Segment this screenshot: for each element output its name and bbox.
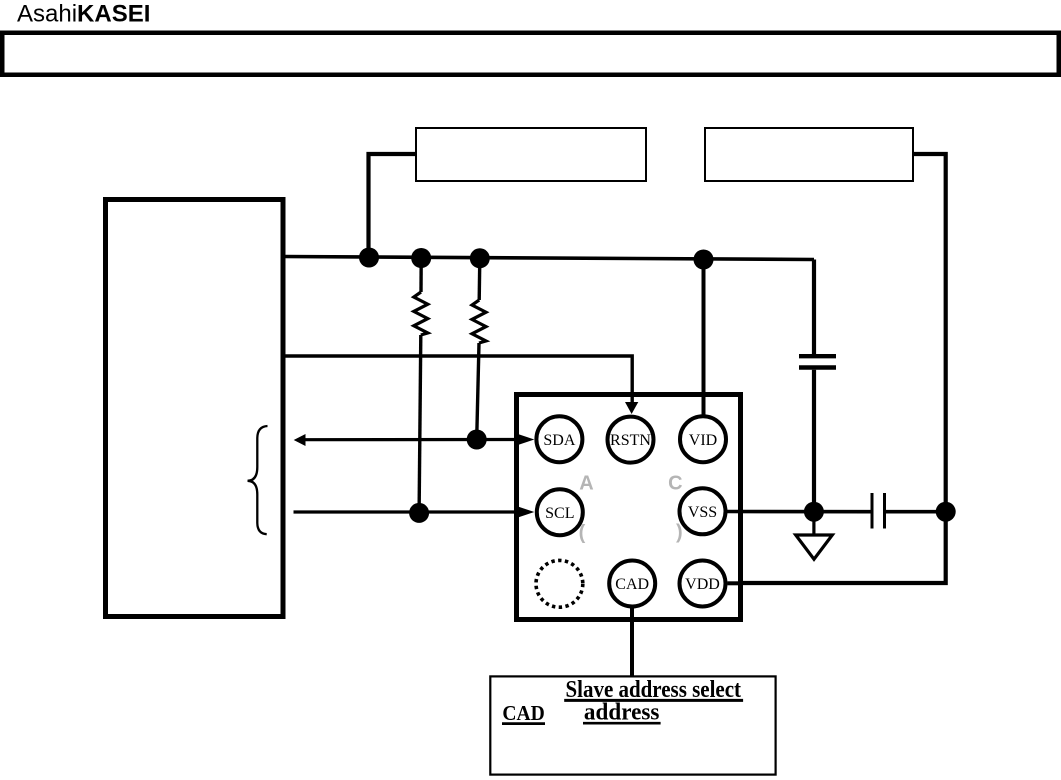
ground symbol [796, 535, 833, 559]
capacitor C2 plate right [883, 493, 886, 529]
wire RSTN control [284, 356, 633, 403]
svg-text:SCL: SCL [545, 505, 574, 522]
node bus-1 [359, 248, 379, 268]
pin index dotted circle [536, 560, 583, 607]
svg-text:CAD: CAD [502, 701, 544, 725]
pin VID [680, 416, 726, 462]
note box CAD address [490, 676, 775, 774]
box left (controller) [106, 200, 284, 617]
ground stem [812, 512, 815, 535]
svg-text:VID: VID [689, 432, 717, 449]
capacitor C2 plate left [871, 493, 874, 529]
svg-text:VDD: VDD [685, 576, 720, 593]
svg-text:VSS: VSS [688, 504, 717, 521]
note underline CAD [502, 722, 545, 725]
svg-text:SDA: SDA [543, 432, 575, 449]
note underline line1 [564, 699, 743, 702]
header title box [2, 33, 1059, 75]
pin SCL [537, 489, 583, 535]
wire resistor R1 top lead [419, 258, 423, 292]
svg-text:C: C [668, 473, 682, 495]
node SDA junction [467, 430, 487, 450]
chip outline [517, 395, 741, 620]
arrowhead SDA left (to controller) [294, 434, 306, 446]
arrowhead into RSTN [625, 402, 638, 414]
svg-text:AsahiKASEI: AsahiKASEI [17, 1, 150, 28]
wire supply bus [284, 257, 815, 260]
wire resistor R2 bottom lead to SDA [477, 343, 479, 440]
wire resistor R2 top lead [478, 258, 482, 300]
box top-left (pull-up supply) [416, 128, 646, 181]
wire CAD to note box [630, 606, 634, 677]
brace I2C port group [248, 426, 268, 534]
node bus-3 [470, 248, 490, 268]
node SCL junction [409, 503, 429, 523]
svg-text:RSTN: RSTN [610, 432, 651, 449]
box top-right (power supply) [705, 128, 913, 181]
node bus-2 [411, 248, 431, 268]
node bus-4 (VID tap) [694, 250, 714, 270]
pin CAD [609, 561, 655, 607]
arrowhead SCL right (into pin) [518, 506, 535, 517]
wire resistor R1 bottom lead to SCL [419, 335, 421, 513]
pin SDA [536, 416, 582, 462]
pin VSS [680, 488, 726, 534]
wire from top-right box down VDD rail [740, 154, 946, 583]
wire capacitor C1 to ground node [812, 370, 816, 512]
resistor R2 (SDA pull-up) [472, 300, 486, 343]
resistor R1 (SCL pull-up) [414, 292, 428, 335]
wire bus corner down to capacitor C1 [812, 260, 816, 355]
node VDD rail junction [936, 502, 956, 522]
capacitor C1 plate top [799, 354, 836, 358]
wire from top-left box to bus [369, 154, 417, 258]
wire VID to bus [702, 260, 706, 417]
svg-text:CAD: CAD [615, 576, 649, 593]
wire SDA line [303, 438, 520, 441]
capacitor C1 plate bottom [799, 365, 836, 369]
pin VDD [680, 561, 726, 607]
pin RSTN [608, 417, 654, 463]
wire VDD pin to rail [728, 581, 741, 585]
svg-text:A: A [579, 473, 593, 495]
svg-text:address: address [584, 700, 660, 726]
wire VSS to ground node [727, 510, 871, 514]
node VSS/ground junction [804, 502, 824, 522]
note underline address [583, 722, 661, 725]
wire SCL line [294, 510, 521, 513]
arrowhead SDA right (into pin) [518, 434, 535, 445]
wire capacitor C2 to VDD rail [886, 510, 946, 514]
